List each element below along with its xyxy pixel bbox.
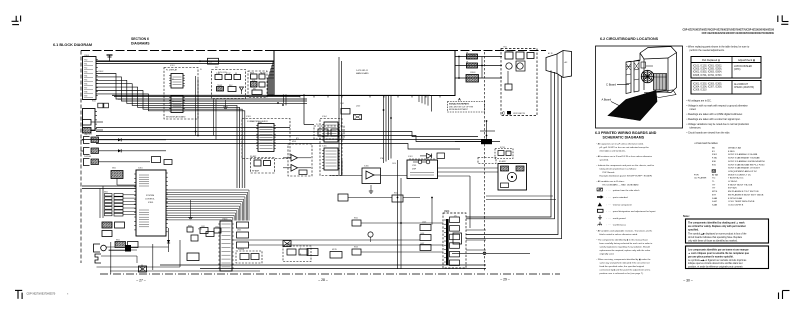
legend symbol: internal component triangle [598,203,632,207]
svg-text:6.1 BLOCK DIAGRAM: 6.1 BLOCK DIAGRAM [53,43,92,47]
svg-text:Note:: Note: [683,214,690,218]
svg-text:CDP-XE270/XE370/XE570: CDP-XE270/XE370/XE570 [27,293,56,296]
jack phones rear [95,254,137,263]
resistor boxes R811 R812 [115,242,138,248]
box R322 [392,195,403,202]
svg-text:XTAL: XTAL [380,157,384,160]
svg-text:IC201: IC201 [170,65,175,67]
diode D102 [118,149,121,152]
svg-text:EX: DL/BOARD — PAD: 1/D/BO: EX: DL/BOARD — PAD: 1/D/BOARD [603,184,639,187]
box R151 [152,157,161,163]
svg-text:R832: R832 [188,226,192,228]
block timer key [248,71,267,98]
heavy top bus wire [96,60,274,62]
svg-text:par une pièce portant le numér: par une pièce portant le numéro spécifié… [688,255,734,258]
svg-text:TX3: TX3 [84,71,87,73]
long vertical wire x401 [400,178,402,269]
svg-text:TIMER: TIMER [217,85,223,87]
diode D101 [118,138,121,141]
jack headphone front [94,244,169,252]
svg-text:BTT: BTT [712,194,717,196]
legend symbol: earth chassis [597,222,626,227]
svg-text:ALL/CIRCUIT: ALL/CIRCUIT [734,83,749,86]
svg-text:IC304, IC306, IC307, IC308,: IC304, IC306, IC307, IC308, [693,87,722,89]
svg-text:FL: FL [200,69,202,71]
svg-text:TIL:: TIL: [712,178,716,180]
svg-text:DIAGRAMS: DIAGRAMS [131,42,150,46]
svg-text:R811: R811 [116,240,120,242]
box C905 [437,153,445,159]
player chassis isometric drawing [626,47,677,94]
relay box K301 [283,241,291,247]
diode D801 [167,228,170,252]
svg-text:• Circuit boards are viewed f: • Circuit boards are viewed from the sid… [687,132,731,135]
dashed block phone amp [236,251,262,263]
junction dots on main bottom [383,109,392,119]
svg-text:FL DISPLAY: FL DISPLAY [166,69,178,72]
value labels [84,47,553,256]
A board marker [458,97,461,102]
svg-text:BT/T A/S: BT/T A/S [728,187,737,190]
abbreviation list [694,147,766,207]
svg-text:S-AT: S-AT [712,200,717,203]
svg-text:IC101, IC102, IC501, IC502,: IC101, IC102, IC501, IC502, [693,66,722,68]
registration mark bottom-left [15,290,22,299]
wire bundle main board left pins [267,63,274,97]
svg-text:– 30 –: – 30 – [683,278,693,282]
box Q801 [237,222,249,228]
switch S201 [215,75,222,80]
spindle flywheel [641,70,653,82]
label C board [502,111,526,116]
svg-text:• All variables and adjustabl: • All variables and adjustable resistors… [597,230,653,233]
label A Board [602,98,621,107]
svg-text:CDP-XE270: CDP-XE270 [513,113,526,115]
resistor R813 black [125,245,131,252]
svg-text:CN901: CN901 [470,55,475,57]
svg-text:CXD: CXD [412,165,417,167]
ground G3 [369,185,373,193]
IC201 [169,74,185,89]
svg-text:The components identified b: The components identified by shading and… [688,221,745,224]
legend symbol: parts extended arrow [597,195,628,199]
main board bottom pins [300,96,440,98]
block RF amp IC302 [251,158,275,174]
connector CN102 [83,109,98,131]
svg-text:been carefully factory-selecte: been carefully factory-selected for each… [600,242,654,245]
svg-text:pF: µµF. 50 WV or less are not: pF: µµF. 50 WV or less are not indicated… [600,146,649,149]
svg-text:Q407: Q407 [420,243,424,245]
model list header top right [682,29,774,35]
svg-text:FOR: FOR [694,174,699,176]
svg-text:tolerances.: tolerances. [690,127,702,130]
wire bus left of IC801 [82,186,136,218]
svg-text:E BUS: E BUS [728,151,735,153]
long vertical wire x397 [397,160,399,269]
svg-text:electrolytics and tantalums.: electrolytics and tantalums. [600,150,627,153]
svg-text:AC: AC [565,61,568,64]
block FL display driver IC201/IC202 [164,68,198,120]
bus system control to connector [166,190,249,221]
svg-text:IC304: IC304 [322,116,327,118]
svg-text:S801: S801 [104,192,108,194]
dashed block audio out [283,246,311,262]
signal route note box [448,102,485,113]
svg-text:• A hand and the tables:: • A hand and the tables: [694,142,719,145]
svg-text:BTL: BTL [296,138,299,140]
op-amp block IC306 [362,168,381,184]
svg-text:CD PLAYER:: CD PLAYER: [694,177,707,180]
junction dots misc [195,102,402,224]
svg-text:• All variables are in Ω ohms: • All variables are in Ω ohms: [597,180,625,183]
svg-text:S-AB: S-AB [712,197,718,200]
IC305 [322,148,340,170]
svg-text:SONY N /LAMINA-1 F14-0MB: SONY N /LAMINA-1 F14-0MB [728,153,758,156]
svg-text:• The components identified b: • The components identified by ■ in this… [597,239,649,242]
chassis base bracket [641,62,676,98]
wire bus mid band [82,128,484,150]
svg-text:BD: BD [712,148,715,150]
block driver IC304/IC305 [320,119,342,176]
svg-text:same way and perform indicated: same way and perform indicated if the ci… [600,262,650,265]
svg-text:position, et seule la référen: position, et seule la référence original… [688,266,743,269]
svg-text:SONY N /LAMINA-1 EM BUS/EM/250: SONY N /LAMINA-1 EM BUS/EM/250 [728,160,766,163]
legend symbol: pattern side [597,188,640,192]
svg-text:R323: R323 [354,247,358,249]
svg-text:TX8: TX8 [84,91,87,93]
svg-text:R101: R101 [92,101,96,103]
svg-text:• Readings are taken with a c: • Readings are taken with a colour bar s… [687,118,741,121]
svg-text:• Indicate the components and: • Indicate the components and parts on t… [597,164,655,167]
wires DSP to motor assembly [438,168,499,228]
svg-text:C Board: C Board [606,83,616,87]
svg-text:TX6: TX6 [84,83,87,85]
svg-text:IC801: IC801 [148,202,154,204]
svg-text:: · · · · pattern from the s: : · · · · pattern from the side which [607,189,641,192]
connector CN903 [466,75,479,83]
svg-text:X801: X801 [112,168,116,170]
svg-text:• When servicing, components: • When servicing, components identified … [597,258,652,261]
svg-text:SYSTEM: SYSTEM [146,195,155,197]
svg-text:LV/EQUIPMENT AB/S-UP DC: LV/EQUIPMENT AB/S-UP DC [728,170,757,173]
registration mark top-right [778,15,789,24]
antenna symbol on top bus [107,55,113,61]
svg-text:SEL: SEL [253,88,256,90]
svg-text:IC303: IC303 [246,116,251,118]
svg-text:only with these of those as id: only with these of those as identified a… [688,239,738,242]
block buffer amps dashed [283,144,312,176]
svg-text:F301: F301 [712,154,718,156]
svg-text:– 28 –: – 28 – [318,278,328,282]
AC power plug [546,51,572,78]
registration mark top-left [12,16,21,25]
svg-text:C832: C832 [215,226,219,228]
connector CN104 [83,128,104,134]
wire pair FL block down [196,76,199,136]
svg-text:C831: C831 [201,226,205,228]
svg-text:1-675-982-11: 1-675-982-11 [356,70,369,72]
parts table row 2 [691,81,761,95]
connector CN103 [83,120,104,126]
svg-text:POWER: POWER [505,51,512,53]
svg-text:IC305: IC305 [322,146,327,148]
svg-text:: · · · · earth/chassis: : · · · · earth/chassis [607,224,627,227]
svg-text:M901: M901 [292,141,296,143]
svg-text:Part Replaced ▤: Part Replaced ▤ [702,59,720,62]
svg-text:SONY N /AB EMAGE T BUS/AB: SONY N /AB EMAGE T BUS/AB [728,157,760,160]
svg-text:FF: FF [235,73,237,75]
illustration frame board locations [596,46,683,128]
svg-text:IC309, IC310: IC309, IC310 [693,90,707,92]
svg-text:E30: E30 [712,161,717,163]
wire jack pair lower [109,249,137,251]
svg-text:A: A [458,97,461,102]
svg-text:PHONE: PHONE [238,249,245,251]
IC304 [322,122,340,142]
svg-text:COLD DB/TE B: COLD DB/TE B [728,204,744,206]
parts table header [691,57,761,63]
svg-text:IC503, IC504, IC505, IC506,: IC503, IC504, IC505, IC506, [693,69,722,71]
crystal X801 [111,171,136,186]
svg-text:replacement be required, repla: replacement be required, replace only wi… [600,249,651,252]
wire pair key block down [214,100,217,140]
wires bottom left [97,240,261,271]
capacitor box C301 [341,109,350,115]
svg-text:MODE ADJUSTMENT: MODE ADJUSTMENT [449,108,469,111]
boxes mid bottom row [187,227,221,237]
svg-text:IC306: IC306 [364,166,369,168]
power supply block T901 [501,49,537,116]
jack LINE OUT R [81,148,167,155]
IC DSP CXD3068Q [407,158,438,178]
connector CN803 [218,221,234,271]
svg-text:6.3 PRINTED WIRING BOARDS AND: 6.3 PRINTED WIRING BOARDS AND [595,131,657,135]
box R330 [307,249,318,256]
svg-text:IC301, IC302, IC303, IC305,: IC301, IC302, IC303, IC305, [693,84,722,86]
registration mark bottom-right [779,291,790,300]
svg-text:KEY/DISPLAY BOARD: KEY/DISPLAY BOARD [166,116,186,119]
diagram border top [81,50,546,52]
svg-text:: · · · · parts extended: : · · · · parts extended [607,196,629,199]
svg-text:Q406: Q406 [420,233,424,235]
svg-text:RF AMP: RF AMP [252,170,260,173]
svg-text:TX2: TX2 [84,67,87,69]
svg-text:perform the needed adjustments: perform the needed adjustments. [690,49,725,52]
svg-text:blocks noted in unless otherwi: blocks noted in unless otherwise noted. [600,233,639,236]
svg-text:TL: TL [712,181,715,183]
svg-text:noted.: noted. [690,108,697,111]
svg-text:• All voltages are in DC.: • All voltages are in DC. [687,100,712,103]
svg-text:CONTROL: CONTROL [145,199,156,201]
diagram border bottom [100,273,560,275]
motor assembly block [498,164,527,191]
svg-text:R831: R831 [198,229,202,231]
heading 6.3 PRINTED WIRING BOARDS [595,131,657,140]
svg-text:COLD TE/MP DB/S-PS/DB: COLD TE/MP DB/S-PS/DB [728,201,755,203]
svg-text:DSP: DSP [412,169,417,171]
wire vertical x152 [152,244,154,270]
svg-text:LINE OUT: LINE OUT [84,134,92,136]
svg-text:CN602: CN602 [98,71,103,73]
svg-text:EM PLAS/EM E T/S-T BS/T DB: EM PLAS/EM E T/S-T BS/T DB [728,190,759,193]
wire risers x283 [283,95,287,106]
wire vertical x110 [110,242,112,274]
svg-text:are critical for safety. Repla: are critical for safety. Replace only wi… [688,225,746,228]
junction circle on C boundary [452,252,530,255]
box R815 [191,235,198,241]
svg-text:TX0: TX0 [84,59,87,61]
IC202 [169,96,185,113]
block pickup assembly dashed [314,126,344,139]
jack LINE OUT L [81,137,167,144]
svg-text:MT/S: MT/S [712,191,718,193]
IC303 body [256,124,276,152]
connector CN901 [467,54,478,59]
bullets below table [687,100,750,135]
box Q802 [237,232,249,238]
power switch S901 [455,120,500,144]
svg-text:L: L [300,248,301,250]
footer doc number [27,293,70,296]
svg-text:T BUS/T/A-I DC: T BUS/T/A-I DC [728,177,744,180]
svg-text:6.2 CIRCUIT/BOARD LOCATIONS: 6.2 CIRCUIT/BOARD LOCATIONS [600,37,659,41]
svg-text:DETAIL/T-AB: DETAIL/T-AB [728,147,742,150]
svg-text:Q801: Q801 [237,230,241,232]
svg-text:ITT: ITT [712,184,716,186]
svg-text:TX9: TX9 [84,95,87,97]
svg-text:CN803: CN803 [222,219,227,221]
svg-text:IC401: IC401 [408,156,413,158]
connector 2P circles [413,160,430,164]
wire top bus to main board [96,63,274,65]
box R320 [338,194,348,201]
svg-text:CHECK (ADJ/CHK): CHECK (ADJ/CHK) [734,86,754,89]
svg-text:Adjust/Check ▦: Adjust/Check ▦ [738,59,755,62]
svg-text:REW: REW [250,73,254,75]
svg-text:TX1: TX1 [84,63,87,65]
svg-text:• All resistors are in Ω and: • All resistors are in Ω and 1/4 W or le… [597,155,653,158]
svg-text:Example distribution (panel: E: Example distribution (panel: EXCEPT/CHIP… [600,175,653,178]
svg-text:: · · · · earth ground: : · · · · earth ground [607,217,627,220]
paragraph notes on boards [597,143,655,187]
svg-text:C410: C410 [392,163,396,165]
main board outline [274,51,455,96]
svg-text:SIGNAL ROUTE/PATH:: SIGNAL ROUTE/PATH: [449,103,470,106]
svg-text:TX5: TX5 [84,79,87,81]
svg-text:C: C [502,111,505,116]
IC system control IC801 [134,170,168,236]
svg-text:S-AB: S-AB [712,203,718,206]
svg-text:LV BUS/L: LV BUS/L [728,181,738,183]
svg-text:PAUSE: PAUSE [260,72,266,75]
svg-text:ITT: ITT [712,188,716,190]
svg-text:SONY N /AB EMAGE 1 E BUS/T: SONY N /AB EMAGE 1 E BUS/T [728,167,761,170]
box trio left of servo connector [420,225,431,251]
svg-text:indique que les circuits doive: indique que les circuits doivent être vé… [688,262,743,265]
wire thick band pair [112,95,430,96]
label C Board [606,83,629,87]
transistor Q305 [368,232,373,242]
svg-text:CN903: CN903 [470,72,475,74]
wire pair motor to cords [486,196,556,200]
svg-text:specified.: specified. [600,160,610,162]
svg-text:SCHEMATIC DIAGRAMS: SCHEMATIC DIAGRAMS [603,135,645,139]
svg-text:T901: T901 [503,47,507,49]
svg-text:Q302: Q302 [356,106,360,108]
transistor Q201 [240,87,244,94]
svg-text:Q405: Q405 [422,222,426,224]
svg-text:TX7: TX7 [84,87,87,89]
wires main to power [455,56,502,79]
svg-text:R321: R321 [354,218,358,220]
svg-text:The symbol ▬▶ displayed on s: The symbol ▬▶ displayed on some product … [688,232,747,235]
wires right column verticals [431,197,486,250]
svg-text:: · · · · panel designation: : · · · · panel designation and adjustme… [607,210,656,213]
diagram border left [80,51,82,264]
svg-text:▲ sont critiques pour la sé: ▲ sont critiques pour la sécurité. Ne le… [688,252,750,255]
svg-text:BD ASSY: BD ASSY [499,160,507,163]
svg-text:taking electrical potential, i: taking electrical potential, it as follo… [600,168,637,171]
svg-text:satisfy regulations regarding: satisfy regulations regarding X-ray radi… [600,246,651,249]
wire drop pins x420 [419,96,432,112]
svg-text:CN202: CN202 [444,211,449,213]
svg-text:F-BU: F-BU [712,158,718,160]
legend symbol: earth ground [598,215,626,220]
capacitor box C302 [354,115,362,120]
svg-text:DISC MOTOR OUT OF THE: DISC MOTOR OUT OF THE [449,106,474,108]
svg-text:Le symbole ▬▶ et figurant sur: Le symbole ▬▶ et figurant sur certains c… [688,259,747,262]
svg-text:KEY: KEY [215,67,219,69]
ground G2 [223,100,227,109]
note box 2 french safety [686,246,769,269]
paragraphs after legend [597,230,654,276]
svg-text:TX4: TX4 [84,75,87,77]
wires bottom bus [160,240,486,269]
svg-text:SECTION 6: SECTION 6 [131,37,149,41]
svg-text:circuit boards indicates that: circuit boards indicates that operating … [688,236,743,239]
svg-text:– 27 –: – 27 – [136,279,146,283]
box mute Q310 [330,252,342,259]
svg-text:fixed the specified value, the: fixed the specified value, the specified… [600,265,645,268]
block servo IC303 [242,119,290,159]
svg-text:EM PLAS/EM E BUS/T BS/T T/A D: EM PLAS/EM E BUS/T BS/T T/A DB [728,193,764,196]
box R321 [352,220,361,226]
diode D902 [420,154,432,159]
wire drop bundle from main board [384,96,392,164]
svg-text:• All capacitors are in µF un: • All capacitors are in µF unless otherw… [597,143,645,146]
reset block IC802 [102,222,125,237]
svg-text:SONY N /AB BUS/AB EM F5-1 F/2: SONY N /AB BUS/AB EM F5-1 F/250 [728,163,765,166]
svg-text:Les composants identifiés par: Les composants identifiés par un trame e… [688,248,749,251]
wires op-amp connections [330,160,443,252]
connector CN902 [467,63,478,68]
A board black panel [608,91,657,121]
svg-text:– 29 –: – 29 – [500,278,510,282]
dashed box above DSP [478,158,496,164]
svg-text:CN601: CN601 [84,55,89,57]
svg-text:RY901: RY901 [500,147,505,149]
box R152 [164,160,172,165]
svg-text:C301: C301 [340,103,344,105]
box Q803 [237,242,249,248]
svg-text:(CHK): (CHK) [734,69,741,71]
svg-text:A Board: A Board [602,98,612,102]
svg-text:AC IN: AC IN [548,52,553,55]
parts table row 1 [691,63,761,79]
svg-text:IC605, IC701, IC702, IC703: IC605, IC701, IC702, IC703 [693,75,722,77]
svg-text:IC601, IC602, IC603, IC604,: IC601, IC602, IC603, IC604, [693,72,722,74]
relay dashed box [495,149,513,159]
